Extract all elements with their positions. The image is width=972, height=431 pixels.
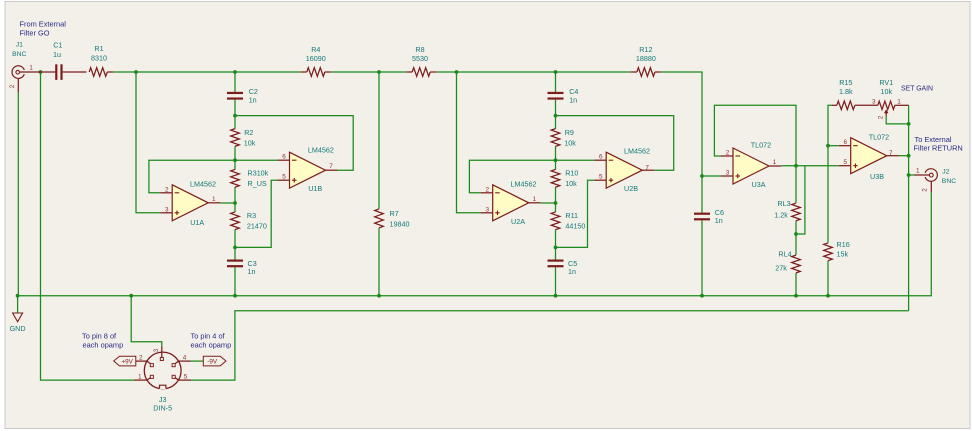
svg-text:J2: J2 <box>942 168 949 175</box>
junction (131.2,295.7) <box>129 294 133 298</box>
svg-text:From External: From External <box>20 20 67 29</box>
wire U2A output to ladder <box>541 202 556 204</box>
resistor R16 15k <box>824 240 850 261</box>
wire ground rail drop to DIN pin 3 <box>131 296 162 347</box>
svg-text:To pin 8 of: To pin 8 of <box>82 332 117 341</box>
svg-text:RL3: RL3 <box>777 199 790 208</box>
note To External Filter RETURN <box>914 135 963 153</box>
wire RL3 divider bracket to U3B pin5 node <box>796 166 805 234</box>
wire U3B pin6 to R16 <box>827 146 829 243</box>
svg-text:16090: 16090 <box>306 54 326 63</box>
svg-text:LM4562: LM4562 <box>511 180 537 189</box>
svg-text:R7: R7 <box>390 209 399 218</box>
junction (828,295.7) <box>826 294 830 298</box>
svg-text:27k: 27k <box>775 264 787 273</box>
wire ladder2 R10 to R11 <box>555 187 557 212</box>
svg-text:2: 2 <box>9 84 16 88</box>
capacitor C4 1n <box>548 87 579 104</box>
wire ladder2 C5 to ground rail <box>555 267 557 296</box>
resistor R3 21470 <box>231 211 267 231</box>
wire R7 branch <box>378 72 380 209</box>
svg-text:1: 1 <box>29 65 33 72</box>
svg-text:10k: 10k <box>244 139 256 148</box>
wire U3A input branch / C6 branch <box>701 86 703 213</box>
wire riser to U2A pin 3 <box>457 72 481 213</box>
resistor R7 19840 <box>375 209 410 229</box>
svg-text:each opamp: each opamp <box>191 341 232 350</box>
svg-text:7: 7 <box>645 164 649 171</box>
svg-text:C1: C1 <box>53 41 62 50</box>
svg-text:2: 2 <box>922 188 929 192</box>
wire U3B output <box>899 155 909 157</box>
note To pin 4 of each opamp <box>191 332 232 350</box>
wire U2A pin2 feedback loop <box>469 160 594 193</box>
svg-text:4: 4 <box>183 354 187 361</box>
svg-text:R310k: R310k <box>248 169 269 178</box>
wire U2B pin5 tap <box>556 180 595 247</box>
wire RV1 output riser <box>908 105 910 310</box>
svg-text:2: 2 <box>726 150 730 157</box>
wire J1 tap down to DIN pin 1 <box>41 72 135 380</box>
junction (908.6,175) <box>907 173 911 177</box>
svg-text:21470: 21470 <box>247 222 267 231</box>
potentiometer RV1 10k SET GAIN <box>872 78 909 119</box>
junction (235,72) <box>233 70 237 74</box>
svg-text:RV1: RV1 <box>879 78 893 87</box>
svg-text:LM4562: LM4562 <box>624 147 650 156</box>
resistor R10 10k <box>551 169 578 189</box>
svg-text:RL4: RL4 <box>778 250 791 259</box>
connector J1 BNC <box>9 41 40 92</box>
op-amp U3B TL072 <box>839 132 899 181</box>
junction (40.5,72) <box>39 70 43 74</box>
junction (456.5,72) <box>455 70 459 74</box>
svg-text:1.8k: 1.8k <box>839 87 853 96</box>
svg-text:44150: 44150 <box>565 222 585 231</box>
wire rail R4 to R8 <box>331 71 406 73</box>
op-amp U2B LM4562 <box>594 147 654 193</box>
resistor R12 18880 <box>631 45 661 76</box>
wire tap to U3A pin 3 <box>702 175 721 177</box>
svg-text:1: 1 <box>916 168 920 175</box>
junction (136,72) <box>134 70 138 74</box>
junction (555.5,295.7) <box>554 294 558 298</box>
capacitor C1 1u <box>41 41 87 80</box>
svg-text:5: 5 <box>843 159 847 166</box>
resistor R8 5530 <box>406 45 436 76</box>
svg-text:5: 5 <box>184 374 188 381</box>
svg-text:3: 3 <box>165 206 169 213</box>
svg-text:1n: 1n <box>248 267 256 276</box>
wire U1B pin5 tap <box>235 180 278 247</box>
svg-text:10k: 10k <box>565 179 577 188</box>
svg-text:U3A: U3A <box>752 180 766 189</box>
svg-text:R15: R15 <box>839 78 852 87</box>
junction (379,295.7) <box>377 294 381 298</box>
svg-text:1: 1 <box>138 374 142 381</box>
junction (796,295.7) <box>794 294 798 298</box>
junction (235,203) <box>233 201 237 205</box>
svg-text:R2: R2 <box>244 128 253 137</box>
wire RL3 top <box>795 166 797 203</box>
ground symbol GND <box>10 313 26 333</box>
svg-text:3: 3 <box>872 98 876 105</box>
junction (555.5,115.6) <box>554 114 558 118</box>
svg-text:1n: 1n <box>568 267 576 276</box>
wire DIN pin4 to -9V flag <box>191 360 204 362</box>
wire R15 feedback branch <box>828 105 832 145</box>
svg-text:1n: 1n <box>249 95 257 104</box>
junction (828,145.7) <box>826 144 830 148</box>
op-amp U3A TL072 <box>721 140 781 189</box>
junction (555.5,247.4) <box>554 246 558 250</box>
resistor RL4 27k <box>775 250 800 273</box>
junction (379,72) <box>377 70 381 74</box>
svg-text:+9V: +9V <box>122 359 134 366</box>
capacitor C2 1n <box>227 87 258 104</box>
junction (235,295.7) <box>233 294 237 298</box>
wire output to J2 pin1 <box>909 174 915 176</box>
svg-text:1: 1 <box>212 196 216 203</box>
svg-text:10k: 10k <box>881 87 893 96</box>
wire ladder R2 to R310k <box>234 146 236 169</box>
svg-text:7: 7 <box>889 150 893 157</box>
svg-text:U2B: U2B <box>624 184 638 193</box>
svg-text:R8: R8 <box>415 45 424 54</box>
op-amp U1A LM4562 <box>160 180 220 228</box>
svg-text:U2A: U2A <box>511 217 525 226</box>
resistor R2 10k <box>231 128 256 148</box>
wire U1A output to ladder <box>220 202 235 204</box>
note To pin 8 of each opamp <box>82 332 123 350</box>
resistor R1 8310 <box>89 44 113 76</box>
svg-text:3: 3 <box>726 170 730 177</box>
junction (555.5,160.2) <box>554 158 558 162</box>
wire R16 bottom to ground rail <box>827 261 829 296</box>
svg-text:1n: 1n <box>569 95 577 104</box>
svg-text:7: 7 <box>329 163 333 170</box>
svg-text:-9V: -9V <box>207 359 218 366</box>
junction (702,176) <box>700 174 704 178</box>
capacitor C6 1n <box>694 208 724 225</box>
wire R7 bottom to ground rail <box>378 228 380 296</box>
resistor R310k R_US <box>231 169 269 189</box>
wire U3A pin2 feedback loop <box>714 105 796 166</box>
svg-text:each opamp: each opamp <box>83 341 124 350</box>
wire output return line to DIN pin 5 <box>191 311 909 380</box>
svg-text:1n: 1n <box>715 216 723 225</box>
op-amp U2A LM4562 <box>481 180 541 226</box>
junction (555.5,72) <box>554 70 558 74</box>
svg-text:Filter GO: Filter GO <box>20 29 50 38</box>
wire rail R8 to R12 <box>436 71 631 73</box>
op-amp U1B LM4562 <box>278 146 338 193</box>
wire input rail from J1 to R4 <box>113 71 301 73</box>
svg-text:R4: R4 <box>311 45 320 54</box>
junction (235,247.4) <box>233 246 237 250</box>
junction (555.5,203) <box>554 201 558 205</box>
wire ladder C2 to R2 <box>234 100 236 129</box>
junction (235,160.2) <box>233 158 237 162</box>
svg-text:8310: 8310 <box>91 54 107 63</box>
svg-text:2: 2 <box>165 186 169 193</box>
wire RV1 wiper to output riser <box>886 116 908 124</box>
svg-text:R1: R1 <box>94 44 103 53</box>
svg-text:R12: R12 <box>639 45 652 54</box>
capacitor C3 1n <box>227 259 257 276</box>
junction (17.6,295.7) <box>16 294 20 298</box>
svg-text:1: 1 <box>773 159 777 166</box>
svg-text:2: 2 <box>877 115 884 119</box>
svg-text:R11: R11 <box>565 211 578 220</box>
svg-text:R9: R9 <box>565 128 574 137</box>
resistor R15 1.8k <box>832 78 878 110</box>
svg-text:5: 5 <box>282 174 286 181</box>
note From External Filter GO <box>20 20 67 38</box>
junction (796,234) <box>794 232 798 236</box>
svg-text:10k: 10k <box>564 139 576 148</box>
svg-text:6: 6 <box>843 139 847 146</box>
svg-text:TL072: TL072 <box>751 140 771 149</box>
svg-text:R3: R3 <box>247 211 256 220</box>
connector J2 BNC <box>915 168 957 193</box>
svg-text:BNC: BNC <box>942 178 956 185</box>
resistor R11 44150 <box>551 211 585 231</box>
wire ladder C3 to ground rail <box>234 267 236 296</box>
svg-text:BNC: BNC <box>12 51 26 58</box>
svg-text:DIN-5: DIN-5 <box>153 404 172 413</box>
junction (702,295.7) <box>700 294 704 298</box>
svg-text:R16: R16 <box>837 240 850 249</box>
svg-text:GND: GND <box>10 324 26 333</box>
wire ladder R3 to C3 <box>234 230 236 260</box>
wire rail R12 to U3A input drop <box>661 72 702 86</box>
junction (796,165.8) <box>794 164 798 168</box>
svg-text:R10: R10 <box>565 169 578 178</box>
svg-text:SET GAIN: SET GAIN <box>901 86 933 93</box>
resistor R4 16090 <box>301 45 331 76</box>
wire ladder2 C4 to R9 <box>555 100 557 129</box>
connector J3 DIN-5 <box>134 347 191 413</box>
resistor R9 10k <box>551 128 576 148</box>
wire U3A output to U3B pin5 <box>781 165 839 167</box>
svg-text:6: 6 <box>599 154 603 161</box>
capacitor C5 1n <box>548 259 578 276</box>
svg-text:5530: 5530 <box>412 54 428 63</box>
svg-text:2: 2 <box>485 186 489 193</box>
svg-text:6: 6 <box>282 154 286 161</box>
svg-text:18880: 18880 <box>636 54 656 63</box>
svg-text:U3B: U3B <box>870 172 884 181</box>
wire U2B output feedback to C4 bottom node <box>556 116 674 171</box>
wire RL3 bottom to RL4 top <box>795 221 797 255</box>
svg-text:LM4562: LM4562 <box>308 146 334 155</box>
wire GND stub <box>17 296 19 313</box>
junction (908.6,123.9) <box>907 122 911 126</box>
wire ladder2 R9 to R10 <box>555 146 557 169</box>
wire input riser to U1A pin 3 <box>136 72 160 213</box>
svg-text:1: 1 <box>897 98 901 105</box>
svg-text:To pin 4 of: To pin 4 of <box>191 332 226 341</box>
resistor RL3 1.2k <box>774 199 800 221</box>
svg-text:U1B: U1B <box>308 184 322 193</box>
svg-text:5: 5 <box>599 174 603 181</box>
svg-text:3: 3 <box>153 348 160 352</box>
svg-text:19840: 19840 <box>390 219 410 228</box>
wire U1A pin2 feedback loop <box>149 160 278 193</box>
junction (908.6,155.7) <box>907 154 911 158</box>
wire U1B output feedback to C2 bottom node <box>235 116 353 171</box>
svg-text:Filter RETURN: Filter RETURN <box>914 144 963 153</box>
svg-text:TL072: TL072 <box>869 132 889 141</box>
svg-text:2: 2 <box>139 354 143 361</box>
svg-text:15k: 15k <box>837 250 849 259</box>
wire J1 pin2 to ground rail <box>17 92 19 296</box>
svg-text:3: 3 <box>485 206 489 213</box>
svg-text:R_US: R_US <box>248 179 267 188</box>
svg-text:To External: To External <box>915 135 952 144</box>
wire ladder node C2 top <box>234 72 236 92</box>
wire RL4 bottom to ground rail <box>795 273 797 296</box>
power flag +9V <box>114 356 136 366</box>
wire ladder2 node C4 top <box>555 72 557 92</box>
power flag -9V <box>203 356 226 366</box>
svg-text:U1A: U1A <box>190 218 204 227</box>
svg-text:J1: J1 <box>16 41 23 48</box>
wire ground rail <box>18 192 932 296</box>
svg-text:1.2k: 1.2k <box>774 211 788 220</box>
wire ladder R310k to R3 <box>234 187 236 212</box>
svg-text:1u: 1u <box>53 50 61 59</box>
junction (235,115.6) <box>233 114 237 118</box>
wire ladder2 R11 to C5 <box>555 230 557 260</box>
svg-text:1: 1 <box>533 196 537 203</box>
svg-text:LM4562: LM4562 <box>190 180 216 189</box>
